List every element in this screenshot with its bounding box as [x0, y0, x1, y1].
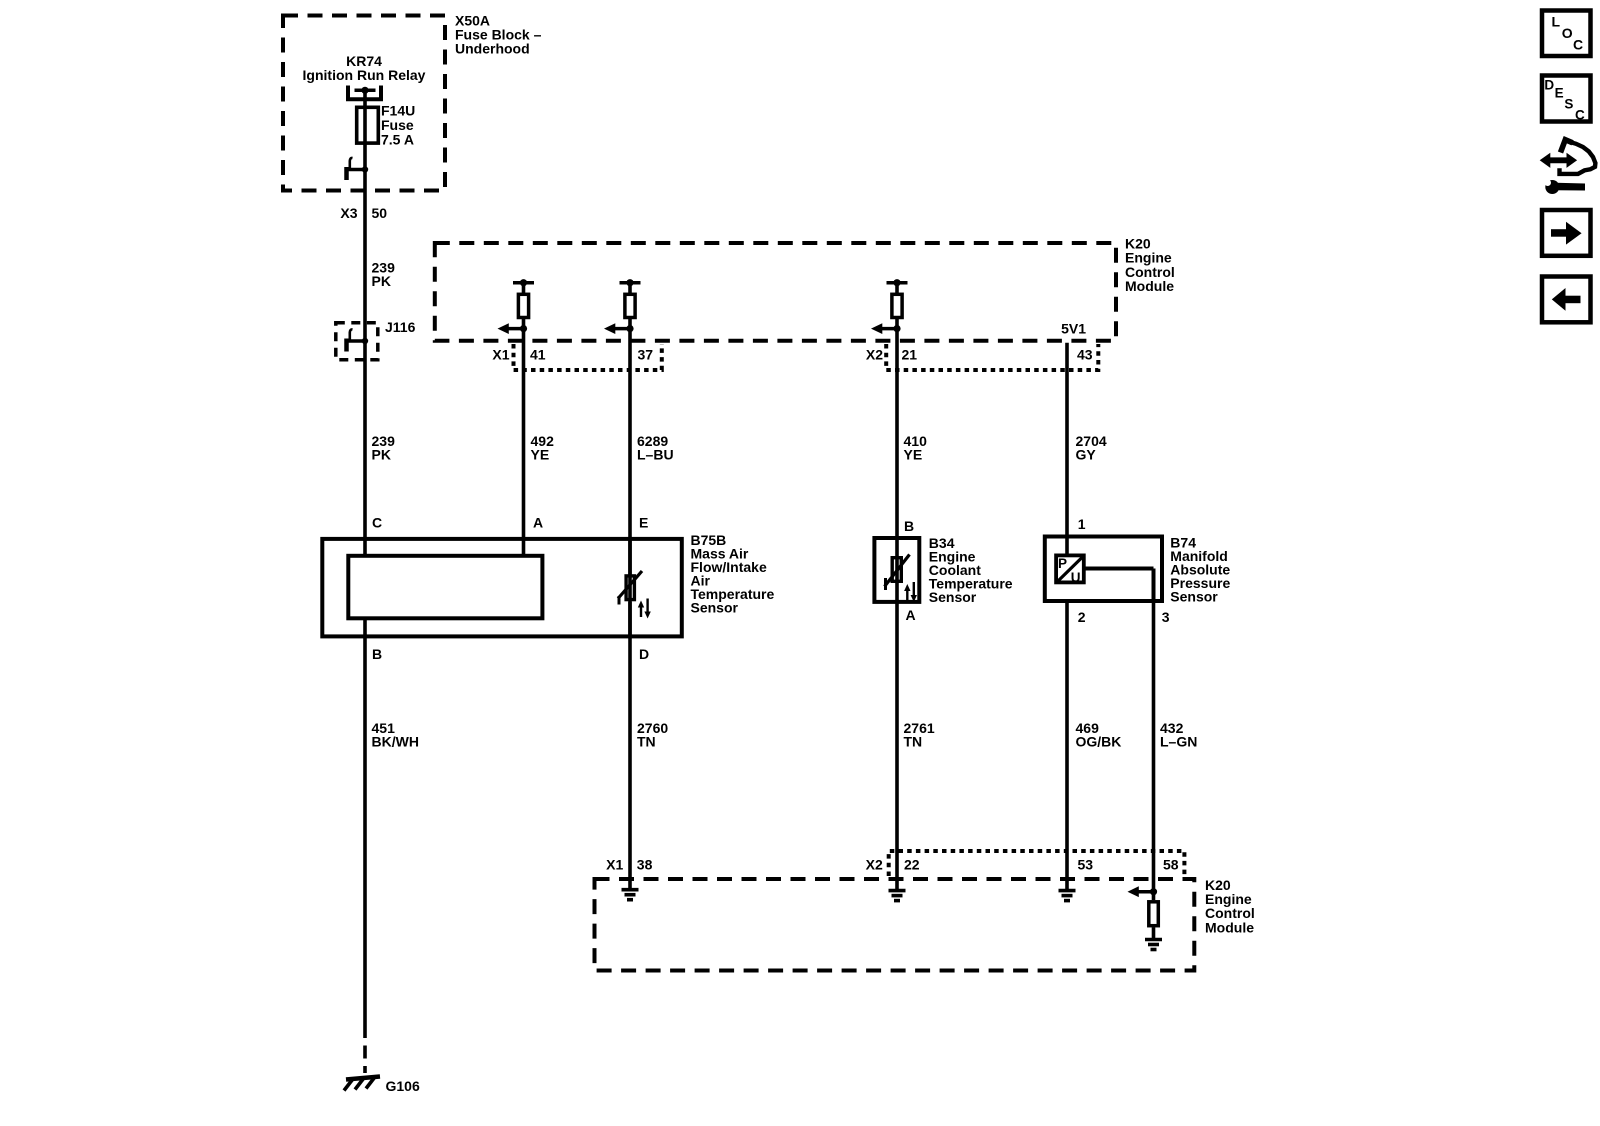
ECM X2 lower connector dotted band	[889, 851, 1185, 876]
label F14U Fuse 7.5 A	[381, 103, 415, 148]
svg-text:X1: X1	[606, 856, 623, 872]
svg-text:E: E	[1555, 86, 1564, 101]
pressure transducer P/U symbol in B74	[1056, 555, 1084, 584]
toolbar swap/reroute icon	[1540, 140, 1596, 194]
wire B34 pin A to ECM X2-22 ground	[895, 583, 899, 891]
ground symbol at ECM pin 58 resistor	[1145, 940, 1162, 950]
pin label X1 38 lower	[606, 856, 652, 872]
svg-text:Sensor: Sensor	[691, 600, 739, 616]
svg-text:Module: Module	[1205, 919, 1254, 935]
ECM X1 connector dotted band	[514, 344, 662, 370]
svg-text:Underhood: Underhood	[455, 41, 530, 57]
pin letter A (B75B)	[533, 515, 543, 531]
svg-text:43: 43	[1077, 346, 1093, 362]
svg-text:Module: Module	[1125, 278, 1174, 294]
svg-text:C: C	[372, 515, 382, 531]
wire label 2760 TN	[637, 720, 668, 750]
wire B74 internal pin 3	[1083, 569, 1154, 604]
pin letter E (B75B)	[639, 515, 648, 531]
pin letter D (B75B)	[639, 646, 649, 662]
wire label 239 PK upper	[372, 259, 396, 289]
svg-text:22: 22	[904, 856, 920, 872]
wire B75B pin B to ground G106	[363, 619, 367, 1073]
pull-up resistor on ECM pin X1-41	[513, 279, 534, 317]
K20 Engine Control Module lower dashed box	[595, 879, 1195, 971]
svg-text:41: 41	[530, 346, 546, 362]
toolbar next page button	[1542, 210, 1591, 256]
splice J116 connector symbol	[346, 329, 368, 351]
ground symbol at ECM pin 53	[1059, 891, 1076, 901]
label K20 Engine Control Module upper	[1125, 236, 1175, 295]
svg-text:YE: YE	[531, 447, 550, 463]
svg-text:A: A	[906, 607, 916, 623]
svg-text:D: D	[639, 646, 649, 662]
svg-text:U: U	[1071, 570, 1081, 585]
ground G106 chassis symbol	[344, 1077, 380, 1091]
svg-text:G106: G106	[386, 1078, 420, 1094]
svg-text:L: L	[1552, 14, 1561, 30]
wire label 6289 L-BU	[637, 433, 674, 463]
resistor at ECM pin 58	[1149, 902, 1159, 940]
svg-text:21: 21	[902, 346, 918, 362]
svg-text:PK: PK	[372, 273, 391, 289]
K20 Engine Control Module upper dashed box	[435, 243, 1116, 341]
sensor B74 box	[1045, 537, 1162, 602]
signal arrow on ECM pin X1-37	[604, 323, 634, 334]
svg-text:BK/WH: BK/WH	[372, 734, 419, 750]
toolbar LOC button	[1542, 11, 1591, 57]
pin letter B (B75B)	[372, 646, 382, 662]
label B75B Mass Air Flow/Intake Air Temperature Sensor	[691, 532, 775, 616]
pin number 2 (B74)	[1078, 609, 1086, 625]
svg-text:E: E	[639, 515, 648, 531]
pull-up resistor on ECM pin X2-21	[887, 279, 908, 317]
svg-text:D: D	[1544, 78, 1554, 93]
pin letter A (B34)	[906, 607, 916, 623]
toolbar previous page button	[1542, 277, 1591, 323]
svg-text:50: 50	[372, 205, 388, 221]
svg-text:O: O	[1562, 25, 1573, 41]
pull-up resistor on ECM pin X1-37	[620, 279, 641, 317]
svg-text:37: 37	[638, 346, 654, 362]
wire ECM X2-21 to B34 pin B	[895, 283, 899, 557]
in-line connector symbol below fuse	[346, 158, 368, 180]
ground symbol at ECM X2-22	[889, 891, 906, 901]
wire ECM X1-41 to MAF pin A	[522, 283, 526, 554]
thermistor in B75B	[618, 571, 642, 605]
wire label 2704 GY	[1076, 433, 1107, 463]
label J116	[385, 319, 416, 335]
pin label 58 lower	[1163, 856, 1179, 872]
svg-text:GY: GY	[1076, 447, 1097, 463]
wire B75B pin D to ECM X1-38 ground	[628, 602, 632, 890]
wire label 451 BK/WH	[372, 720, 419, 750]
label KR74 Ignition Run Relay	[303, 53, 426, 83]
pin label 43	[1077, 346, 1093, 362]
svg-text:TN: TN	[637, 734, 656, 750]
svg-text:S: S	[1564, 97, 1573, 112]
label B34 Engine Coolant Temperature Sensor	[929, 535, 1013, 605]
pin label X2 21	[866, 346, 917, 362]
wire label 432 L-GN	[1160, 720, 1197, 750]
svg-text:C: C	[1573, 37, 1583, 53]
node 5V1 label	[1061, 320, 1086, 336]
svg-text:5V1: 5V1	[1061, 320, 1086, 336]
pin label X2 22 lower	[866, 856, 920, 872]
label X50A Fuse Block - Underhood	[455, 13, 542, 57]
svg-text:38: 38	[637, 856, 653, 872]
pin label X3 50	[340, 205, 387, 221]
splice J116 dashed box	[336, 323, 378, 360]
svg-text:P: P	[1058, 556, 1067, 571]
svg-text:2: 2	[1078, 609, 1086, 625]
svg-text:Ignition Run Relay: Ignition Run Relay	[303, 67, 426, 83]
wire B74 pin 2 to ECM pin 53 ground	[1065, 603, 1069, 891]
temperature arrows in B75B	[638, 599, 651, 619]
toolbar DESC button	[1542, 76, 1591, 123]
svg-text:PK: PK	[372, 447, 391, 463]
temperature arrows in B34	[904, 582, 917, 602]
svg-text:B: B	[372, 646, 382, 662]
ECM X2 connector dotted band	[886, 344, 1098, 370]
svg-text:YE: YE	[904, 447, 923, 463]
svg-text:L–BU: L–BU	[637, 447, 674, 463]
pin label 53 lower	[1078, 856, 1094, 872]
svg-text:C: C	[1575, 108, 1585, 123]
sensor B34 box	[874, 538, 919, 602]
wire B75B pin E to thermistor	[628, 537, 632, 639]
svg-text:Sensor: Sensor	[1170, 588, 1218, 604]
wire ECM X1-37 to MAF pin E	[628, 283, 632, 575]
svg-text:58: 58	[1163, 856, 1179, 872]
label G106	[386, 1078, 420, 1094]
pin label 37	[638, 346, 654, 362]
wire from relay KR74 through fuse to MAF pin C	[363, 90, 367, 554]
fuse F14U	[357, 106, 379, 146]
thermistor in B34	[885, 555, 910, 591]
svg-text:X1: X1	[492, 346, 509, 362]
svg-text:Sensor: Sensor	[929, 589, 977, 605]
relay KR74 contact symbol	[348, 86, 381, 100]
pin letter B (B34)	[904, 518, 914, 534]
wire label 492 YE	[531, 433, 555, 463]
wire label 239 PK lower	[372, 433, 396, 463]
label B74 Manifold Absolute Pressure Sensor	[1170, 534, 1230, 604]
pin number 1 (B74)	[1078, 516, 1086, 532]
svg-text:J116: J116	[385, 319, 416, 335]
svg-text:7.5 A: 7.5 A	[381, 132, 414, 148]
signal arrow on ECM pin X2-21	[871, 323, 901, 334]
wire label 410 YE	[904, 433, 928, 463]
wire B74 pin 3 to ECM pin 58	[1152, 603, 1156, 900]
svg-text:TN: TN	[904, 734, 923, 750]
wire label 469 OG/BK	[1076, 720, 1122, 750]
pin number 3 (B74)	[1162, 609, 1170, 625]
svg-text:X2: X2	[866, 346, 883, 362]
svg-text:OG/BK: OG/BK	[1076, 734, 1122, 750]
sensor B75B mass air flow outer box	[322, 539, 682, 637]
wire label 2761 TN	[904, 720, 935, 750]
svg-text:X2: X2	[866, 856, 883, 872]
svg-text:B: B	[904, 518, 914, 534]
wire ECM X2-43 5V1 to B74 pin 1	[1065, 343, 1069, 554]
ground symbol at ECM X1-38	[622, 890, 639, 900]
pin label X1 41	[492, 346, 545, 362]
svg-text:A: A	[533, 515, 543, 531]
signal arrow at ECM pin 58	[1128, 886, 1158, 897]
svg-text:1: 1	[1078, 516, 1086, 532]
svg-text:3: 3	[1162, 609, 1170, 625]
sensor B75B inner element box	[348, 556, 542, 619]
svg-text:53: 53	[1078, 856, 1094, 872]
svg-text:X3: X3	[340, 205, 357, 221]
svg-text:L–GN: L–GN	[1160, 734, 1197, 750]
signal arrow on ECM pin X1-41	[498, 323, 528, 334]
pin letter C (B75B)	[372, 515, 382, 531]
fuse block X50A dashed box	[283, 16, 445, 191]
label K20 Engine Control Module lower	[1205, 877, 1255, 936]
